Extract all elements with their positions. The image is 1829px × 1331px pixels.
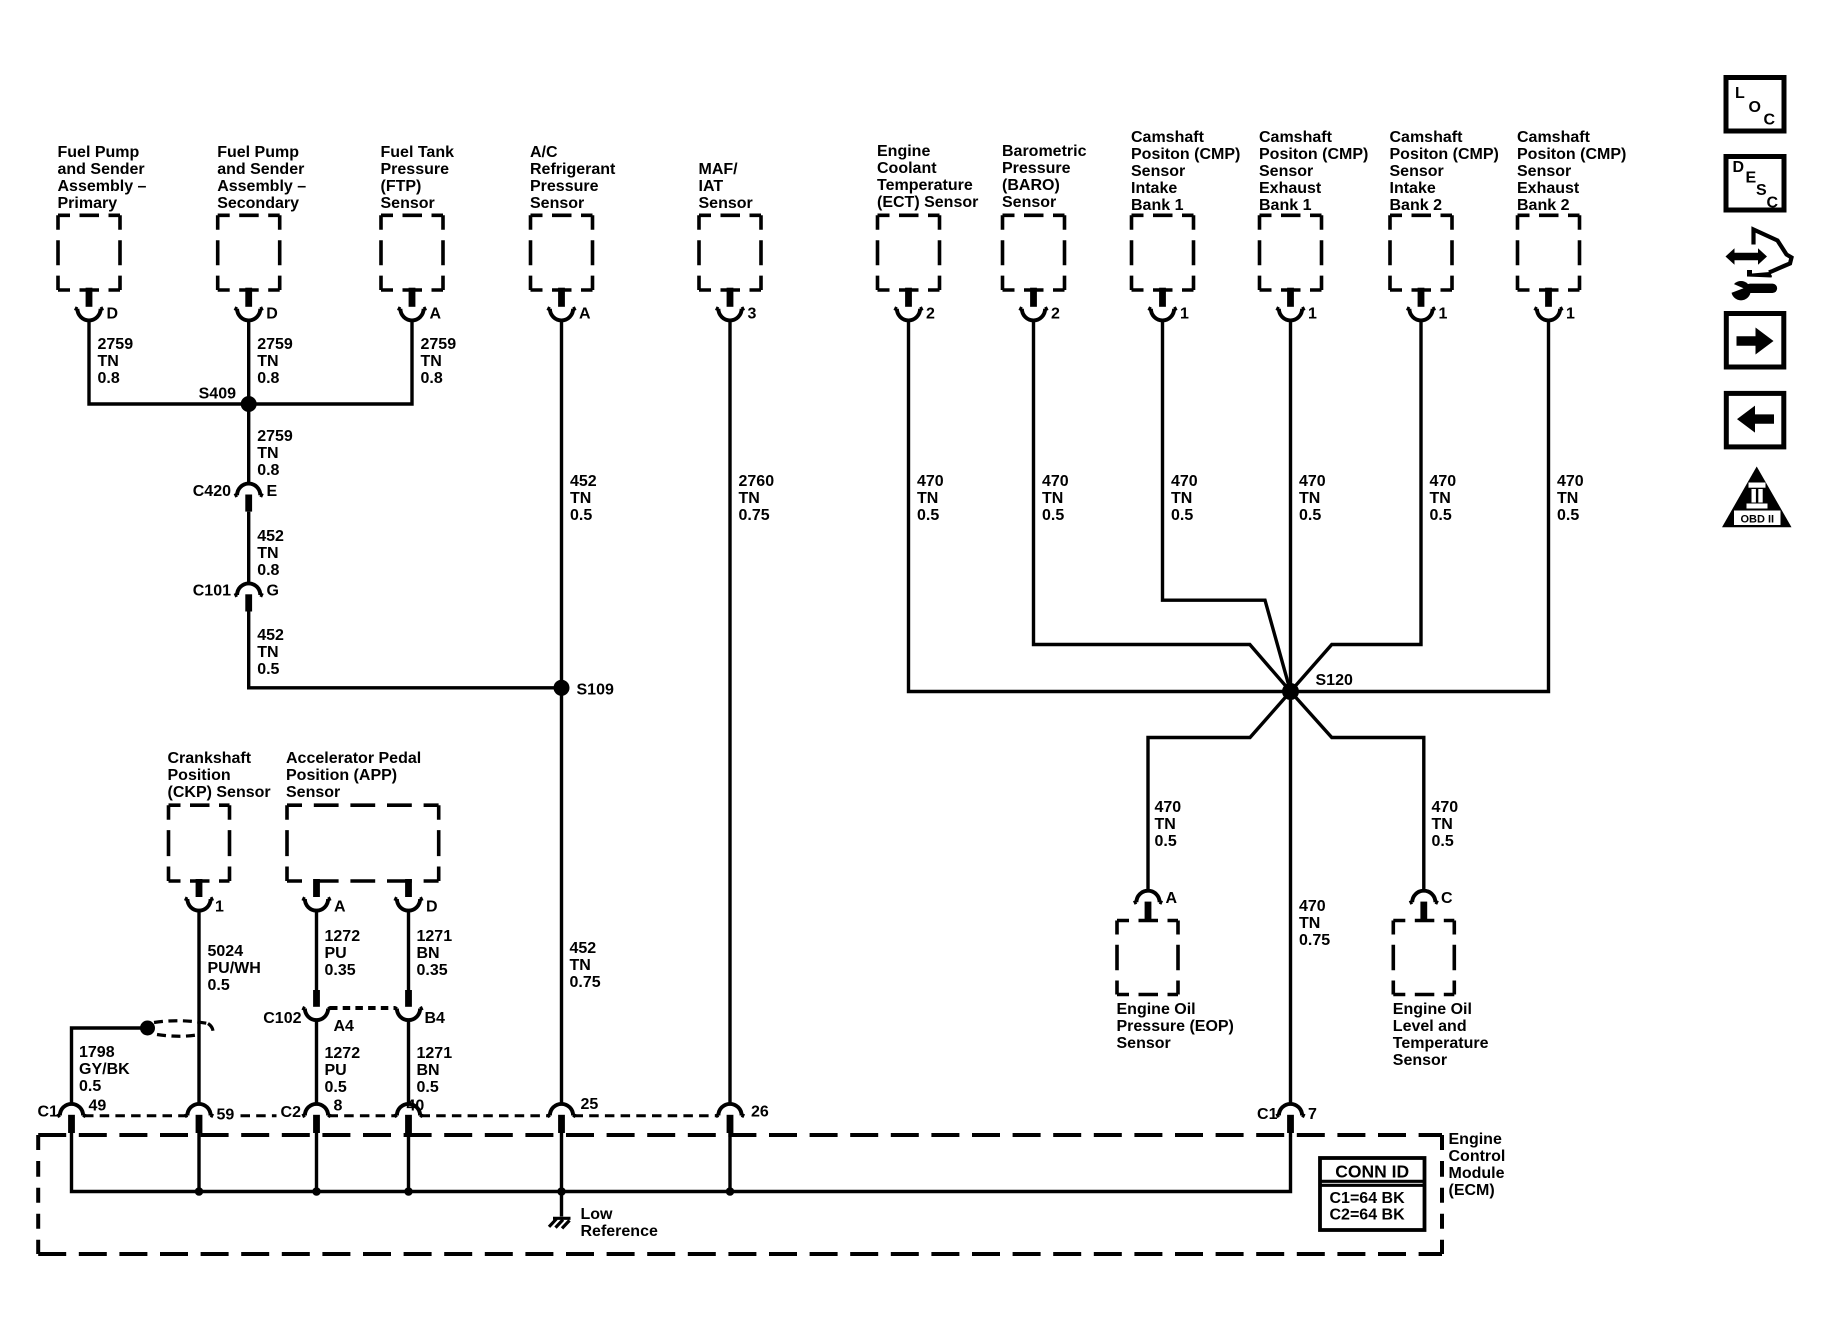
engine oil level and temperature sensor: [1393, 890, 1489, 1069]
svg-text:0.75: 0.75: [739, 507, 770, 524]
svg-text:E: E: [267, 483, 278, 500]
svg-text:1: 1: [1308, 306, 1317, 323]
ECM pin at x=1290.5: [1276, 1104, 1304, 1133]
fuel tank pressure FTP sensor: [381, 144, 455, 323]
wire label 2760 TN 0.75: [739, 473, 775, 524]
svg-text:0.8: 0.8: [98, 370, 120, 387]
svg-text:0.8: 0.8: [421, 370, 443, 387]
accelerator pedal position APP sensor: [286, 750, 439, 916]
ECM pin at x=71.5: [57, 1104, 85, 1133]
wire S120 to EOP sensor: [1148, 692, 1291, 891]
wire C102 A4 to ECM pin 8: [315, 1020, 318, 1104]
svg-text:TN: TN: [739, 490, 760, 507]
svg-text:Intake: Intake: [1390, 180, 1436, 197]
camshaft position CMP sensor intake bank 1: [1131, 129, 1240, 323]
svg-text:Fuel Tank: Fuel Tank: [381, 144, 455, 161]
camshaft position CMP sensor intake bank 2: [1390, 129, 1499, 323]
wire CMP exhaust bank 1 through S120 to ECM pin 7: [1289, 320, 1292, 1104]
wire APP D to C102: [407, 911, 410, 992]
internal wire pin x=408.5: [407, 1133, 410, 1192]
svg-text:Engine: Engine: [877, 143, 930, 160]
svg-text:Sensor: Sensor: [1117, 1035, 1171, 1052]
svg-text:Reference: Reference: [581, 1223, 658, 1240]
svg-text:TN: TN: [257, 644, 278, 661]
svg-text:1271: 1271: [417, 928, 453, 945]
svg-text:Bank 2: Bank 2: [1390, 197, 1443, 214]
svg-text:Positon (CMP): Positon (CMP): [1390, 146, 1499, 163]
svg-text:0.5: 0.5: [257, 661, 279, 678]
svg-text:C101: C101: [193, 583, 231, 600]
wire: [247, 512, 250, 584]
svg-text:B4: B4: [425, 1010, 446, 1027]
svg-text:Engine Oil: Engine Oil: [1117, 1001, 1196, 1018]
svg-text:452: 452: [257, 627, 284, 644]
svg-text:TN: TN: [1299, 915, 1320, 932]
shield splice dot: [140, 1021, 155, 1036]
svg-text:49: 49: [89, 1098, 107, 1115]
connector C102 pins A4 B4: [263, 990, 445, 1035]
svg-text:C1=64 BK: C1=64 BK: [1330, 1190, 1406, 1207]
svg-text:Sensor: Sensor: [1390, 163, 1444, 180]
svg-text:TN: TN: [570, 957, 591, 974]
svg-text:Control: Control: [1449, 1148, 1506, 1165]
ground (low reference): [549, 1218, 571, 1228]
svg-text:TN: TN: [1155, 816, 1176, 833]
wire CMP exhaust bank 2 to S120: [1291, 320, 1549, 691]
svg-text:CONN ID: CONN ID: [1335, 1162, 1409, 1182]
wire label 2759 TN 0.8: [257, 428, 293, 479]
svg-text:PU: PU: [325, 945, 347, 962]
svg-text:and Sender: and Sender: [58, 161, 145, 178]
svg-text:Camshaft: Camshaft: [1390, 129, 1464, 146]
svg-text:1272: 1272: [325, 928, 361, 945]
wire (A/C sensor to ECM pin 25): [560, 320, 563, 1104]
svg-text:BN: BN: [417, 1062, 440, 1079]
icon arrow left: [1726, 393, 1784, 447]
camshaft position CMP sensor exhaust bank 2: [1517, 129, 1626, 323]
svg-text:C2=64 BK: C2=64 BK: [1330, 1207, 1406, 1224]
svg-text:(BARO): (BARO): [1002, 177, 1060, 194]
svg-text:0.5: 0.5: [1432, 833, 1454, 850]
svg-text:Low: Low: [581, 1206, 614, 1223]
svg-text:Sensor: Sensor: [699, 195, 753, 212]
wire label 1271 BN 0.5: [417, 1045, 453, 1096]
svg-text:S109: S109: [577, 681, 614, 698]
wire label 452 TN 0.5: [257, 627, 284, 678]
svg-text:Bank 2: Bank 2: [1517, 197, 1570, 214]
svg-text:Sensor: Sensor: [1517, 163, 1571, 180]
svg-text:0.8: 0.8: [257, 462, 279, 479]
svg-text:470: 470: [1042, 473, 1069, 490]
wire label 1272 PU 0.35: [325, 928, 361, 979]
svg-text:TN: TN: [1171, 490, 1192, 507]
svg-text:Camshaft: Camshaft: [1259, 129, 1333, 146]
svg-text:(ECT) Sensor: (ECT) Sensor: [877, 194, 978, 211]
bus junction dot x=199: [195, 1187, 204, 1196]
svg-text:C102: C102: [263, 1010, 301, 1027]
svg-text:Crankshaft: Crankshaft: [168, 750, 252, 767]
svg-text:1: 1: [1566, 306, 1575, 323]
svg-text:BN: BN: [417, 945, 440, 962]
ECM pin at x=561.5: [547, 1104, 575, 1133]
ECM pin at x=408.5: [394, 1104, 422, 1133]
wire label 452 TN 0.75: [570, 940, 601, 991]
wire: [249, 320, 412, 404]
wire label 1271 BN 0.35: [417, 928, 453, 979]
splice S109: [554, 680, 614, 699]
internal wire pin x=730: [728, 1133, 731, 1192]
wire (MAF to ECM pin 26): [728, 320, 731, 1104]
wire label 470 TN 0.5 (oil level branch): [1432, 799, 1459, 850]
wire label 452 TN 0.5: [570, 473, 597, 524]
svg-text:TN: TN: [421, 353, 442, 370]
svg-text:Position: Position: [168, 767, 231, 784]
svg-text:A: A: [579, 306, 591, 323]
MAF/IAT sensor: [699, 161, 762, 323]
svg-text:5024: 5024: [208, 943, 244, 960]
internal wire pin x=199: [197, 1133, 200, 1192]
svg-text:Fuel Pump: Fuel Pump: [58, 144, 140, 161]
svg-text:Position (APP): Position (APP): [286, 767, 397, 784]
ECM pin at x=316.5: [302, 1104, 330, 1133]
icon adjust/wrench: [1726, 230, 1792, 301]
svg-text:Pressure: Pressure: [381, 161, 450, 178]
svg-text:Assembly –: Assembly –: [217, 178, 306, 195]
svg-text:0.5: 0.5: [1557, 507, 1579, 524]
svg-text:Barometric: Barometric: [1002, 143, 1087, 160]
svg-text:Coolant: Coolant: [877, 160, 937, 177]
svg-text:Sensor: Sensor: [530, 195, 584, 212]
svg-text:Bank 1: Bank 1: [1259, 197, 1312, 214]
wire CMP intake bank 2 to S120: [1291, 320, 1422, 691]
svg-text:TN: TN: [1430, 490, 1451, 507]
svg-text:0.75: 0.75: [1299, 932, 1330, 949]
svg-text:0.5: 0.5: [1042, 507, 1064, 524]
svg-text:A: A: [1166, 890, 1178, 907]
svg-text:Accelerator Pedal: Accelerator Pedal: [286, 750, 421, 767]
svg-text:(ECM): (ECM): [1449, 1182, 1495, 1199]
svg-text:D: D: [426, 899, 438, 916]
svg-text:C1: C1: [1257, 1106, 1278, 1123]
svg-text:IAT: IAT: [699, 178, 724, 195]
ECM pin at x=199: [185, 1104, 213, 1133]
svg-text:Sensor: Sensor: [1259, 163, 1313, 180]
engine oil pressure EOP sensor: [1117, 890, 1234, 1052]
svg-text:2759: 2759: [421, 336, 457, 353]
svg-text:Sensor: Sensor: [1002, 194, 1056, 211]
wire CKP to ECM pin 59: [197, 911, 200, 1104]
ECM label: [1449, 1131, 1506, 1199]
ECM pin at x=730: [716, 1104, 744, 1133]
svg-text:2759: 2759: [257, 428, 293, 445]
svg-text:C420: C420: [193, 483, 231, 500]
svg-text:1798: 1798: [79, 1044, 115, 1061]
svg-text:Engine: Engine: [1449, 1131, 1502, 1148]
svg-text:Camshaft: Camshaft: [1131, 129, 1205, 146]
shield dashed loop around CKP wire: [154, 1021, 213, 1037]
svg-text:470: 470: [1557, 473, 1584, 490]
barometric pressure BARO sensor: [1002, 143, 1087, 323]
svg-text:Refrigerant: Refrigerant: [530, 161, 616, 178]
svg-text:470: 470: [1299, 898, 1326, 915]
bus junction dot x=561.5: [557, 1187, 566, 1196]
svg-text:470: 470: [1299, 473, 1326, 490]
fuel pump and sender assembly secondary: [217, 144, 306, 323]
CONN ID table: [1320, 1158, 1425, 1230]
svg-text:452: 452: [257, 528, 284, 545]
connector C101 pin G: [193, 583, 279, 612]
wire C102 B4 to ECM pin 40: [407, 1020, 410, 1104]
crankshaft position CKP sensor: [168, 750, 271, 916]
wire S120 to engine oil level sensor: [1291, 692, 1424, 891]
A/C refrigerant pressure sensor: [530, 144, 616, 323]
svg-text:7: 7: [1308, 1106, 1317, 1123]
svg-text:TN: TN: [257, 445, 278, 462]
svg-text:2: 2: [926, 306, 935, 323]
svg-text:1: 1: [1180, 306, 1189, 323]
svg-text:(FTP): (FTP): [381, 178, 422, 195]
svg-text:1: 1: [1439, 306, 1448, 323]
svg-text:A4: A4: [334, 1018, 355, 1035]
wire: [249, 612, 562, 688]
svg-text:0.35: 0.35: [325, 962, 356, 979]
svg-text:Temperature: Temperature: [1393, 1035, 1489, 1052]
svg-text:Module: Module: [1449, 1165, 1505, 1182]
wire label 1798 GY/BK 0.5: [79, 1044, 130, 1095]
svg-text:OBD II: OBD II: [1740, 514, 1774, 526]
svg-text:Sensor: Sensor: [286, 784, 340, 801]
icon OBD II triangle: [1722, 467, 1792, 528]
svg-text:0.5: 0.5: [1155, 833, 1177, 850]
svg-text:Pressure: Pressure: [530, 178, 599, 195]
splice S409: [199, 386, 257, 413]
svg-text:TN: TN: [257, 353, 278, 370]
svg-text:C2: C2: [281, 1104, 302, 1121]
svg-text:25: 25: [581, 1096, 599, 1113]
svg-text:2759: 2759: [98, 336, 134, 353]
ECM internal low reference bus: [72, 1133, 1291, 1192]
wire CMP intake bank 1 to S120: [1163, 320, 1291, 691]
wire label 470 TN 0.5: [1042, 473, 1069, 524]
internal wire pin x=316.5: [315, 1133, 318, 1192]
svg-text:Camshaft: Camshaft: [1517, 129, 1591, 146]
svg-text:26: 26: [751, 1104, 769, 1121]
wire label 2759 TN 0.8: [98, 336, 134, 387]
wire: [247, 320, 250, 483]
svg-text:0.5: 0.5: [79, 1078, 101, 1095]
wire label 470 TN 0.75: [1299, 898, 1330, 949]
wire label 2759 TN 0.8: [421, 336, 457, 387]
wire label 470 TN 0.5: [1171, 473, 1198, 524]
wire label 1272 PU 0.5: [325, 1045, 361, 1096]
svg-text:1: 1: [215, 899, 224, 916]
bus junction dot x=316.5: [312, 1187, 321, 1196]
wire BARO to S120: [1034, 320, 1291, 691]
svg-text:S120: S120: [1316, 672, 1353, 689]
svg-text:A: A: [334, 899, 346, 916]
svg-text:TN: TN: [1042, 490, 1063, 507]
svg-text:G: G: [267, 583, 279, 600]
splice S120: [1282, 672, 1353, 700]
wire label 470 TN 0.5: [917, 473, 944, 524]
engine coolant temperature ECT sensor: [877, 143, 978, 323]
fuel pump and sender assembly primary: [58, 144, 147, 323]
svg-text:2760: 2760: [739, 473, 775, 490]
svg-text:8: 8: [334, 1098, 343, 1115]
svg-text:Bank 1: Bank 1: [1131, 197, 1184, 214]
svg-text:TN: TN: [1557, 490, 1578, 507]
svg-text:PU/WH: PU/WH: [208, 960, 261, 977]
svg-text:Assembly –: Assembly –: [58, 178, 147, 195]
wire label 470 TN 0.5: [1430, 473, 1457, 524]
svg-text:3: 3: [748, 306, 757, 323]
svg-text:Positon (CMP): Positon (CMP): [1517, 146, 1626, 163]
Low Reference label: [581, 1206, 658, 1240]
wire label 452 TN 0.8: [257, 528, 284, 579]
svg-text:59: 59: [217, 1107, 235, 1124]
internal wire pin 25 to ground: [560, 1133, 563, 1217]
svg-text:0.5: 0.5: [325, 1079, 347, 1096]
svg-text:Fuel Pump: Fuel Pump: [217, 144, 299, 161]
svg-text:C: C: [1441, 890, 1453, 907]
svg-text:0.8: 0.8: [257, 370, 279, 387]
svg-text:TN: TN: [1432, 816, 1453, 833]
svg-text:Positon (CMP): Positon (CMP): [1259, 146, 1368, 163]
wire label 470 TN 0.5: [1299, 473, 1326, 524]
svg-text:470: 470: [1155, 799, 1182, 816]
shield drain wire 1798: [72, 1028, 148, 1104]
svg-text:0.5: 0.5: [417, 1079, 439, 1096]
svg-text:470: 470: [1171, 473, 1198, 490]
svg-text:PU: PU: [325, 1062, 347, 1079]
bus junction dot x=408.5: [404, 1187, 413, 1196]
svg-text:470: 470: [1432, 799, 1459, 816]
camshaft position CMP sensor exhaust bank 1: [1259, 129, 1368, 323]
svg-text:0.5: 0.5: [208, 977, 230, 994]
svg-text:Exhaust: Exhaust: [1517, 180, 1580, 197]
wire label 470 TN 0.5: [1557, 473, 1584, 524]
wire label 5024 PU/WH 0.5: [208, 943, 261, 994]
svg-text:D: D: [1733, 159, 1745, 176]
svg-text:Sensor: Sensor: [1393, 1052, 1447, 1069]
svg-text:1271: 1271: [417, 1045, 453, 1062]
svg-text:C: C: [1767, 195, 1779, 212]
bus junction dot x=730: [726, 1187, 735, 1196]
svg-text:0.5: 0.5: [1430, 507, 1452, 524]
svg-text:S409: S409: [199, 386, 236, 403]
svg-text:0.5: 0.5: [1171, 507, 1193, 524]
svg-text:TN: TN: [257, 545, 278, 562]
svg-text:Pressure (EOP): Pressure (EOP): [1117, 1018, 1234, 1035]
wire APP A to C102: [315, 911, 318, 992]
svg-text:TN: TN: [570, 490, 591, 507]
svg-text:(CKP) Sensor: (CKP) Sensor: [168, 784, 271, 801]
svg-text:0.5: 0.5: [570, 507, 592, 524]
svg-text:and Sender: and Sender: [217, 161, 304, 178]
svg-text:A/C: A/C: [530, 144, 558, 161]
svg-text:O: O: [1749, 99, 1761, 116]
svg-text:GY/BK: GY/BK: [79, 1061, 130, 1078]
connector line C1/C2 (dashed): [84, 1114, 718, 1117]
svg-text:MAF/: MAF/: [699, 161, 739, 178]
svg-text:2: 2: [1051, 306, 1060, 323]
svg-text:452: 452: [570, 473, 597, 490]
engine control module ECM dashed box: [38, 1135, 1442, 1254]
svg-text:Temperature: Temperature: [877, 177, 973, 194]
svg-text:TN: TN: [1299, 490, 1320, 507]
svg-text:L: L: [1735, 85, 1745, 102]
svg-text:452: 452: [570, 940, 597, 957]
icon LOC: [1726, 78, 1784, 132]
wire: [89, 320, 249, 404]
wire label 470 TN 0.5 (EOP branch): [1155, 799, 1182, 850]
svg-text:Secondary: Secondary: [217, 195, 299, 212]
connector C420 pin E: [193, 483, 278, 512]
svg-text:0.8: 0.8: [257, 562, 279, 579]
svg-text:0.5: 0.5: [917, 507, 939, 524]
svg-text:Sensor: Sensor: [1131, 163, 1185, 180]
svg-text:TN: TN: [917, 490, 938, 507]
svg-text:C: C: [1764, 112, 1776, 129]
wire label 2759 TN 0.8: [257, 336, 293, 387]
svg-text:Level and: Level and: [1393, 1018, 1467, 1035]
svg-text:1272: 1272: [325, 1045, 361, 1062]
svg-text:470: 470: [1430, 473, 1457, 490]
svg-text:2759: 2759: [257, 336, 293, 353]
svg-text:0.75: 0.75: [570, 974, 601, 991]
svg-text:470: 470: [917, 473, 944, 490]
icon arrow right: [1726, 314, 1784, 368]
svg-text:Intake: Intake: [1131, 180, 1177, 197]
svg-text:Sensor: Sensor: [381, 195, 435, 212]
svg-text:Exhaust: Exhaust: [1259, 180, 1322, 197]
svg-text:C1: C1: [38, 1104, 59, 1121]
svg-text:Pressure: Pressure: [1002, 160, 1071, 177]
svg-text:0.5: 0.5: [1299, 507, 1321, 524]
svg-text:0.35: 0.35: [417, 962, 448, 979]
svg-text:D: D: [107, 306, 119, 323]
svg-text:E: E: [1746, 170, 1757, 187]
svg-text:TN: TN: [98, 353, 119, 370]
wire ECT to S120: [909, 320, 1291, 691]
svg-text:Positon (CMP): Positon (CMP): [1131, 146, 1240, 163]
svg-text:D: D: [266, 306, 278, 323]
svg-text:A: A: [430, 306, 442, 323]
svg-text:S: S: [1756, 182, 1767, 199]
svg-text:40: 40: [407, 1098, 425, 1115]
svg-text:Engine Oil: Engine Oil: [1393, 1001, 1472, 1018]
icon DESC: [1726, 157, 1784, 212]
svg-text:Primary: Primary: [58, 195, 118, 212]
